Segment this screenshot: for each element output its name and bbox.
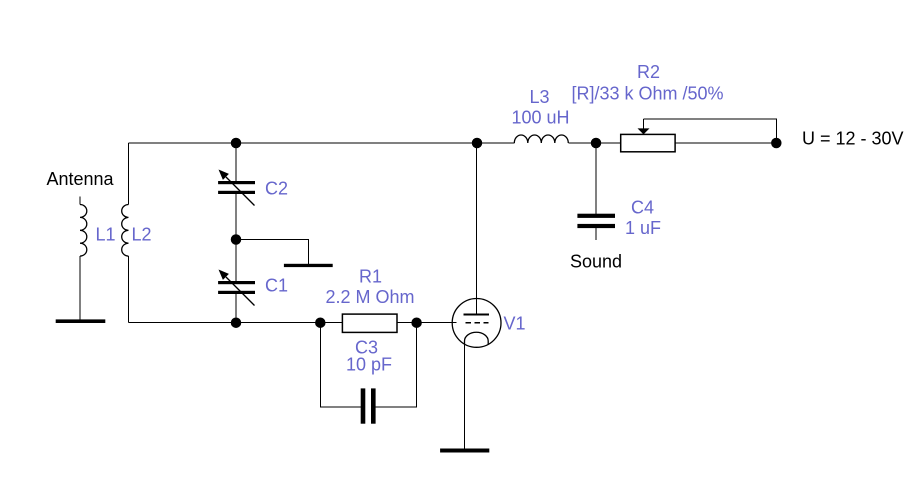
capacitor C3	[361, 388, 376, 423]
label R1 value 2.2 M Ohm	[326, 287, 415, 307]
label R1	[359, 267, 382, 287]
svg-text:1 uF: 1 uF	[625, 218, 661, 238]
wire C3 left branch	[320, 323, 361, 407]
node top of C2	[231, 138, 242, 149]
wire middle node to ground	[236, 240, 308, 265]
label R2	[637, 62, 660, 82]
wire C4 bottom stub	[595, 228, 597, 240]
potentiometer R2 body	[621, 134, 675, 151]
antenna lead stub	[79, 197, 81, 205]
label C4 value 1 uF	[625, 218, 661, 238]
wire top rail between L3 and R2	[568, 142, 620, 144]
wire C2 top lead	[235, 143, 237, 181]
node between C1 and C2	[231, 234, 242, 245]
svg-text:L3: L3	[530, 87, 550, 107]
wire bottom rail (corner to R1 left)	[129, 322, 343, 324]
wire top supply rail (left segment)	[129, 142, 515, 144]
label R2 value [R]/33 k Ohm /50%	[572, 84, 724, 104]
wire C2 bottom lead	[235, 194, 237, 240]
node R1 left	[315, 317, 326, 328]
label L3 value 100 uH	[512, 108, 570, 128]
node bottom of C1	[231, 317, 242, 328]
label L2	[132, 225, 152, 245]
triode V1 grid (dashed)	[465, 322, 488, 324]
label U = 12 - 30V	[802, 129, 904, 149]
wire R1 right to node	[397, 322, 417, 324]
triode V1 envelope	[452, 299, 501, 348]
wire left rail lower (L2 to bottom corner)	[128, 256, 130, 323]
svg-text:R1: R1	[359, 267, 382, 287]
label V1	[504, 314, 526, 334]
wire grid lead to tube	[417, 322, 457, 324]
capacitor C1 (variable)	[218, 270, 255, 306]
svg-text:R2: R2	[637, 62, 660, 82]
svg-text:[R]/33 k Ohm /50%: [R]/33 k Ohm /50%	[572, 84, 724, 104]
wire top rail between R2 and supply terminal	[675, 142, 776, 144]
capacitor C4	[577, 214, 615, 228]
svg-text:V1: V1	[504, 314, 526, 334]
svg-text:2.2 M Ohm: 2.2 M Ohm	[326, 287, 415, 307]
svg-text:C1: C1	[265, 276, 288, 296]
svg-text:L2: L2	[132, 225, 152, 245]
label C3 value 10 pF	[346, 355, 392, 375]
svg-text:C4: C4	[631, 198, 654, 218]
node R1 right	[411, 317, 422, 328]
svg-text:U = 12 - 30V: U = 12 - 30V	[802, 129, 904, 149]
svg-text:C2: C2	[265, 179, 288, 199]
resistor R1	[342, 314, 397, 332]
wire C1 bottom lead	[235, 294, 237, 323]
svg-text:10 pF: 10 pF	[346, 355, 392, 375]
wire left rail upper (top corner to L2)	[128, 143, 130, 205]
capacitor C2 (variable)	[218, 170, 255, 206]
wire C4 top lead	[595, 143, 597, 214]
ground (antenna)	[56, 319, 106, 323]
node supply terminal	[771, 138, 782, 149]
label Antenna	[47, 169, 115, 189]
wire C1 top lead	[235, 240, 237, 282]
label C2	[265, 179, 288, 199]
ground (tuning middle)	[284, 264, 333, 267]
svg-text:Antenna: Antenna	[47, 169, 115, 189]
label L1	[96, 225, 116, 245]
inductor L2	[122, 205, 129, 257]
wire R2 wiper to right terminal	[644, 119, 777, 143]
inductor L3	[514, 135, 568, 143]
svg-text:100 uH: 100 uH	[512, 108, 570, 128]
wire C3 right branch	[376, 323, 417, 407]
ground (cathode)	[440, 449, 489, 453]
potentiometer R2 wiper arrow	[638, 119, 650, 134]
wire cathode to ground	[464, 341, 466, 449]
triode V1 anode plate	[464, 314, 490, 316]
wire anode lead	[476, 143, 478, 315]
wire L1 to ground	[79, 256, 81, 319]
label C1	[265, 276, 288, 296]
node anode rail junction	[472, 138, 483, 149]
svg-text:L1: L1	[96, 225, 116, 245]
inductor L1	[80, 205, 87, 257]
label C4	[631, 198, 654, 218]
label L3	[530, 87, 550, 107]
label C3	[355, 338, 378, 358]
svg-text:Sound: Sound	[570, 252, 622, 272]
node L3 right / C4 top	[591, 138, 602, 149]
triode V1 cathode	[465, 332, 489, 344]
label Sound	[570, 252, 622, 272]
